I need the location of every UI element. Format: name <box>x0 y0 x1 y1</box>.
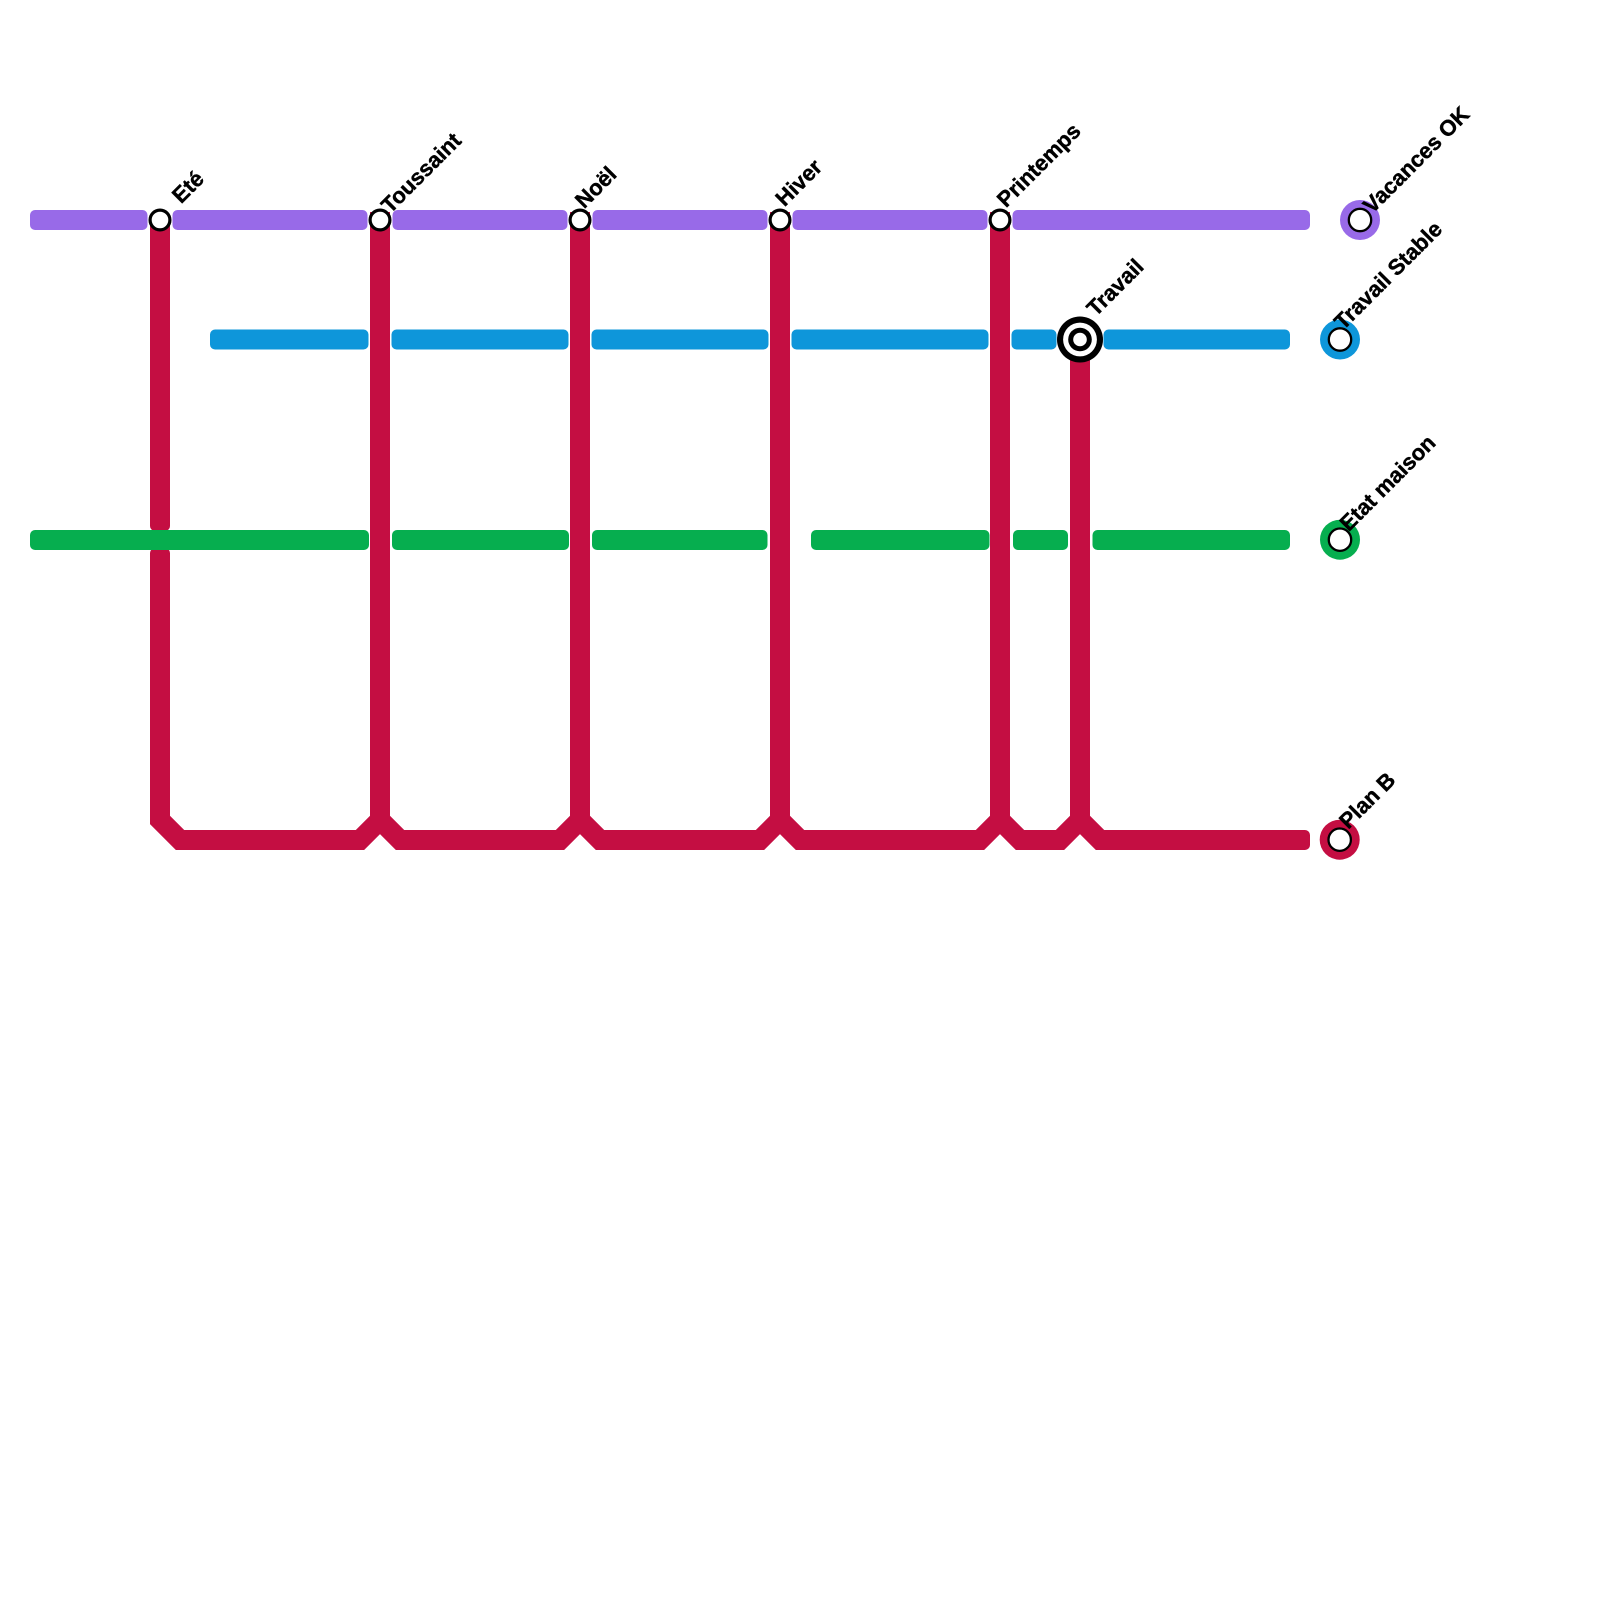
wire green seg 3 <box>592 530 768 550</box>
wire crimson Noel vertical <box>570 212 590 810</box>
wire blue seg 4 <box>792 330 989 350</box>
wire green seg 2 <box>392 530 569 550</box>
wire blue seg 3 <box>592 330 769 350</box>
crimson line "Plan B" <box>150 212 1090 810</box>
wire purple seg 4 <box>593 210 768 230</box>
wire crimson bottom corridor with elbows <box>160 800 1295 840</box>
wire green seg 1 <box>30 530 369 550</box>
station Travail target marker <box>1057 317 1103 363</box>
wire green seg 5 <box>1013 530 1068 550</box>
wire crimson Ete vertical upper <box>150 212 170 531</box>
station Printemps marker <box>990 210 1010 230</box>
station Ete marker <box>150 210 170 230</box>
station Toussaint marker <box>370 210 390 230</box>
wire purple seg 1 <box>30 210 148 230</box>
wire purple seg 5 <box>793 210 988 230</box>
wire crimson Travail vertical <box>1070 340 1090 811</box>
wire crimson Printemps vertical <box>990 212 1010 810</box>
terminal Etat maison <box>1320 520 1360 560</box>
wire crimson Toussaint vertical <box>370 212 390 810</box>
wire crimson Ete vertical lower <box>150 548 170 810</box>
wire blue seg 5 <box>1012 330 1057 350</box>
wire green seg 6 <box>1093 530 1291 550</box>
wire blue seg 1 <box>210 330 369 350</box>
wire green seg 4 <box>811 530 990 550</box>
wire purple seg 6 <box>1013 210 1311 230</box>
purple line "Vacances OK" segments <box>30 210 1310 230</box>
wire crimson Hiver vertical <box>770 212 790 810</box>
station Noel marker <box>570 210 590 230</box>
terminal Plan B <box>1320 820 1360 860</box>
blue line "Travail Stable" segments <box>210 330 1290 350</box>
wire purple seg 2 <box>173 210 368 230</box>
station Hiver marker <box>770 210 790 230</box>
wire blue seg 2 <box>392 330 569 350</box>
terminal Travail Stable <box>1320 320 1360 360</box>
wire blue seg 6 <box>1104 330 1291 350</box>
green line "Etat maison" segments <box>30 530 1290 550</box>
wire purple seg 3 <box>393 210 568 230</box>
wire crimson corridor right cap <box>1240 830 1310 850</box>
terminal Vacances OK <box>1340 200 1380 240</box>
